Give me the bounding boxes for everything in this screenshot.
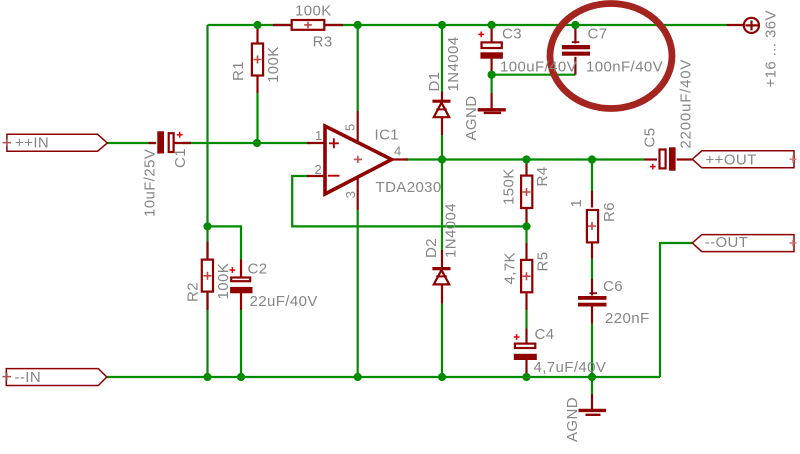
pin stub C5 right	[677, 158, 693, 160]
svg-text:AGND: AGND	[564, 397, 581, 442]
svg-text:2200uF/40V: 2200uF/40V	[678, 59, 695, 149]
pin stub C3 bottom	[491, 59, 493, 75]
pin stub C1 right	[174, 142, 191, 144]
pin stub R6 bottom	[591, 242, 593, 259]
pin stub IC1 pin4	[392, 158, 408, 160]
pin stub R1 bottom	[256, 76, 258, 93]
wire pin2 feedback	[292, 176, 526, 226]
svg-text:D2: D2	[423, 238, 440, 258]
junction ground C2	[237, 373, 245, 381]
power supply symbol +16...36V	[744, 18, 759, 33]
svg-text:22uF/40V: 22uF/40V	[250, 293, 318, 310]
junction C3 bottom	[488, 71, 496, 79]
wire --OUT	[660, 243, 692, 377]
resistor R5	[521, 260, 532, 292]
pin stub R5 bottom	[525, 294, 527, 311]
pin stub AGND2	[591, 394, 593, 410]
svg-text:R5: R5	[535, 252, 552, 272]
wire output	[405, 158, 644, 160]
pin stub IC1 pin5	[357, 111, 359, 143]
wire C3 to C7	[492, 74, 576, 76]
junction top rail pin5	[354, 21, 362, 29]
junction ground R2	[203, 373, 211, 381]
svg-text:100K: 100K	[295, 3, 332, 20]
wire C2 branch	[208, 226, 242, 260]
svg-text:C2: C2	[248, 261, 268, 278]
ground AGND2	[579, 409, 607, 412]
junction output D1	[438, 155, 446, 163]
pin stub C1 left	[149, 142, 157, 144]
svg-text:1: 1	[315, 128, 322, 143]
pin stub D1 bottom	[441, 117, 443, 135]
pin stub R5 top	[525, 243, 527, 259]
svg-text:R6: R6	[601, 202, 618, 222]
pin stub R4 top	[525, 160, 527, 176]
capacitor C1	[157, 131, 164, 153]
wire R5 link	[525, 226, 527, 243]
pin stub IC1 pin3	[357, 176, 359, 210]
junction feedback R4	[522, 222, 530, 230]
wire D1 branch	[441, 25, 443, 92]
svg-text:4,7uF/40V: 4,7uF/40V	[534, 359, 607, 376]
capacitor C4	[515, 344, 535, 348]
pin stub R6 top	[591, 191, 593, 208]
wire ++IN to C1	[107, 142, 156, 144]
svg-text:D1: D1	[426, 72, 443, 92]
wire AGND2 stub	[591, 377, 593, 394]
pin stub R2 top	[206, 242, 208, 259]
svg-text:4,7K: 4,7K	[502, 252, 519, 284]
svg-text:R4: R4	[534, 167, 551, 187]
capacitor C3	[482, 42, 502, 48]
pin stub R3 right	[324, 24, 343, 26]
capacitor C2	[231, 278, 250, 282]
capacitor C5	[660, 150, 666, 169]
junction ground C4	[522, 373, 530, 381]
capacitor C7	[562, 45, 590, 49]
svg-text:1: 1	[568, 199, 585, 208]
svg-text:--IN: --IN	[15, 369, 42, 386]
svg-text:5: 5	[343, 124, 358, 131]
resistor R3	[292, 20, 325, 30]
junction ground D2	[438, 373, 446, 381]
svg-text:+16 ... 36V: +16 ... 36V	[763, 10, 780, 87]
junction top rail D1	[438, 21, 446, 29]
pin stub C4 bottom	[525, 360, 527, 378]
resistor R6	[587, 210, 598, 242]
pin stub D2 bottom	[441, 284, 443, 303]
capacitor C6	[578, 296, 607, 300]
op-amp minus input mark	[328, 175, 340, 177]
pin stub R1 top	[256, 25, 258, 43]
svg-text:R1: R1	[230, 61, 247, 81]
pin stub R3 left	[273, 24, 292, 26]
resistor R2	[202, 260, 213, 292]
junction output R6	[588, 155, 596, 163]
diode D2	[432, 267, 450, 270]
svg-text:C5: C5	[642, 128, 659, 148]
pin stub C3 top	[491, 25, 493, 43]
wire left rail	[206, 25, 208, 377]
svg-text:R3: R3	[313, 33, 333, 50]
svg-text:C7: C7	[588, 26, 608, 43]
wire C1 to IC1 pin1	[183, 142, 310, 144]
wire R1 bottom	[256, 93, 258, 143]
junction left rail C2	[203, 222, 211, 230]
wire R6 branch	[591, 160, 593, 192]
pin stub R4 bottom	[525, 209, 527, 226]
flag ++OUT	[692, 151, 794, 168]
wire pin5 supply	[357, 25, 359, 111]
resistor R4	[521, 176, 532, 208]
pin stub C7 top	[574, 25, 576, 44]
svg-text:1N4004: 1N4004	[443, 203, 460, 258]
wire top rail	[208, 24, 728, 26]
annotation circle	[550, 4, 672, 109]
svg-text:IC1: IC1	[375, 127, 400, 144]
pin stub AGND1	[491, 93, 493, 109]
wire bottom ground rail	[107, 376, 660, 378]
junction output R4	[522, 155, 530, 163]
svg-text:3: 3	[343, 191, 358, 198]
junction ground AGND2	[588, 373, 596, 381]
op-amp U1 IC1 triangle	[325, 126, 392, 194]
svg-text:220nF: 220nF	[605, 310, 650, 327]
junction top rail C3	[488, 21, 496, 29]
pin stub C2 top	[240, 260, 242, 277]
pin stub C4 top	[525, 329, 527, 346]
pin stub D2 top	[441, 250, 443, 268]
svg-text:150K: 150K	[501, 168, 518, 205]
svg-text:++OUT: ++OUT	[706, 152, 757, 169]
junction ground pin3	[354, 373, 362, 381]
op-amp origin cross	[354, 156, 362, 163]
pin stub IC1 pin1	[307, 142, 325, 144]
diode D1	[432, 100, 450, 103]
flag --OUT	[692, 235, 794, 252]
svg-text:100K: 100K	[215, 263, 232, 300]
pin stub D1 top	[441, 92, 443, 101]
resistor R1	[252, 44, 263, 76]
pin stub C6 bottom	[591, 307, 593, 324]
svg-text:C4: C4	[535, 326, 555, 343]
svg-text:++IN: ++IN	[15, 135, 49, 152]
svg-text:1N4004: 1N4004	[445, 37, 462, 92]
svg-text:--OUT: --OUT	[705, 234, 749, 251]
junction top rail R1	[253, 21, 261, 29]
svg-text:4: 4	[394, 144, 401, 159]
junction top rail C7	[571, 21, 579, 29]
wire D2 branch	[441, 160, 443, 251]
svg-text:10uF/25V: 10uF/25V	[142, 149, 159, 217]
pin stub C7 bottom	[574, 57, 576, 75]
svg-text:100K: 100K	[265, 46, 282, 83]
pin stub C2 bottom	[240, 293, 242, 310]
pin stub C6 top	[591, 279, 593, 296]
flag --IN	[6, 369, 107, 386]
pin stub supply	[727, 24, 744, 26]
op-amp plus input mark	[329, 138, 339, 148]
wire pin3 ground	[357, 210, 359, 377]
svg-text:100uF/40V: 100uF/40V	[500, 59, 577, 76]
pin stub R2 bottom	[206, 293, 208, 310]
svg-text:2: 2	[315, 162, 322, 177]
junction input R1	[253, 139, 261, 147]
wire C6 to ground rail	[591, 324, 593, 378]
pin stub IC1 pin2	[307, 175, 325, 177]
svg-text:C6: C6	[603, 278, 623, 295]
svg-text:C1: C1	[172, 148, 189, 168]
flag ++IN	[7, 134, 107, 151]
svg-text:R2: R2	[185, 282, 202, 302]
svg-text:C3: C3	[502, 26, 522, 43]
svg-text:TDA2030: TDA2030	[376, 179, 442, 196]
ground AGND1	[478, 108, 506, 111]
svg-text:AGND: AGND	[463, 96, 480, 141]
pin stub C5 left	[644, 158, 657, 160]
wire C3 to AGND	[491, 75, 493, 93]
svg-text:100nF/40V: 100nF/40V	[586, 59, 663, 76]
